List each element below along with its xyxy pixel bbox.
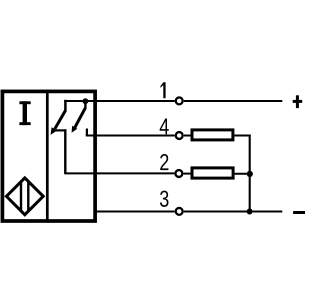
letter I (inductive) [19,101,30,125]
wire pin4 inside box to terminal [86,135,175,137]
load resistor R1 [192,130,233,140]
wire pin3 from body to terminal [94,211,175,213]
pin label 2 [160,154,168,170]
wire resistor R2 to bus [235,173,251,175]
contact K2 arrowhead [72,126,78,133]
minus label [293,211,305,214]
plus label [293,95,303,108]
contact K1 stub [64,100,67,111]
sensing face rhombus [6,178,43,215]
load resistor R2 [192,168,233,178]
contact K2 stub [84,101,86,109]
junction dot pin3 bus [247,209,253,215]
terminal circle 3 [176,208,183,215]
wire K1 fixed bar down to pin2 level [64,129,66,173]
contact K1 fixed bar [55,129,66,131]
contact K1 movable arm [54,110,65,129]
pin label 3 [160,191,169,207]
terminal circle 4 [176,132,183,139]
cell divider [46,92,49,222]
wire pin4 to resistor R1 [184,135,192,137]
rhombus left chord [20,182,22,211]
sensor body outline [2,91,95,221]
contact K1 arrowhead [51,127,58,135]
wire pin1 to plus [184,100,282,102]
pin label 1 [161,82,166,98]
terminal circle 2 [175,170,182,177]
wire resistor R1 to bus [234,135,250,137]
wire pin1 inside box to terminal [64,100,175,102]
wire pin2 inside box to terminal [64,172,174,174]
contact K2 fixed stub [86,129,88,137]
contact K2 movable arm [75,108,86,128]
junction dot on wire 1 [83,98,89,104]
wire pin2 to resistor R2 [184,173,193,175]
terminal circle 1 [176,97,183,104]
junction dot pin2 bus [247,171,253,177]
wire pin3 to minus [184,211,282,213]
bus wire common of pins 4-2-3 [249,135,251,213]
rhombus right chord [27,182,29,211]
pin label 4 [160,118,169,134]
